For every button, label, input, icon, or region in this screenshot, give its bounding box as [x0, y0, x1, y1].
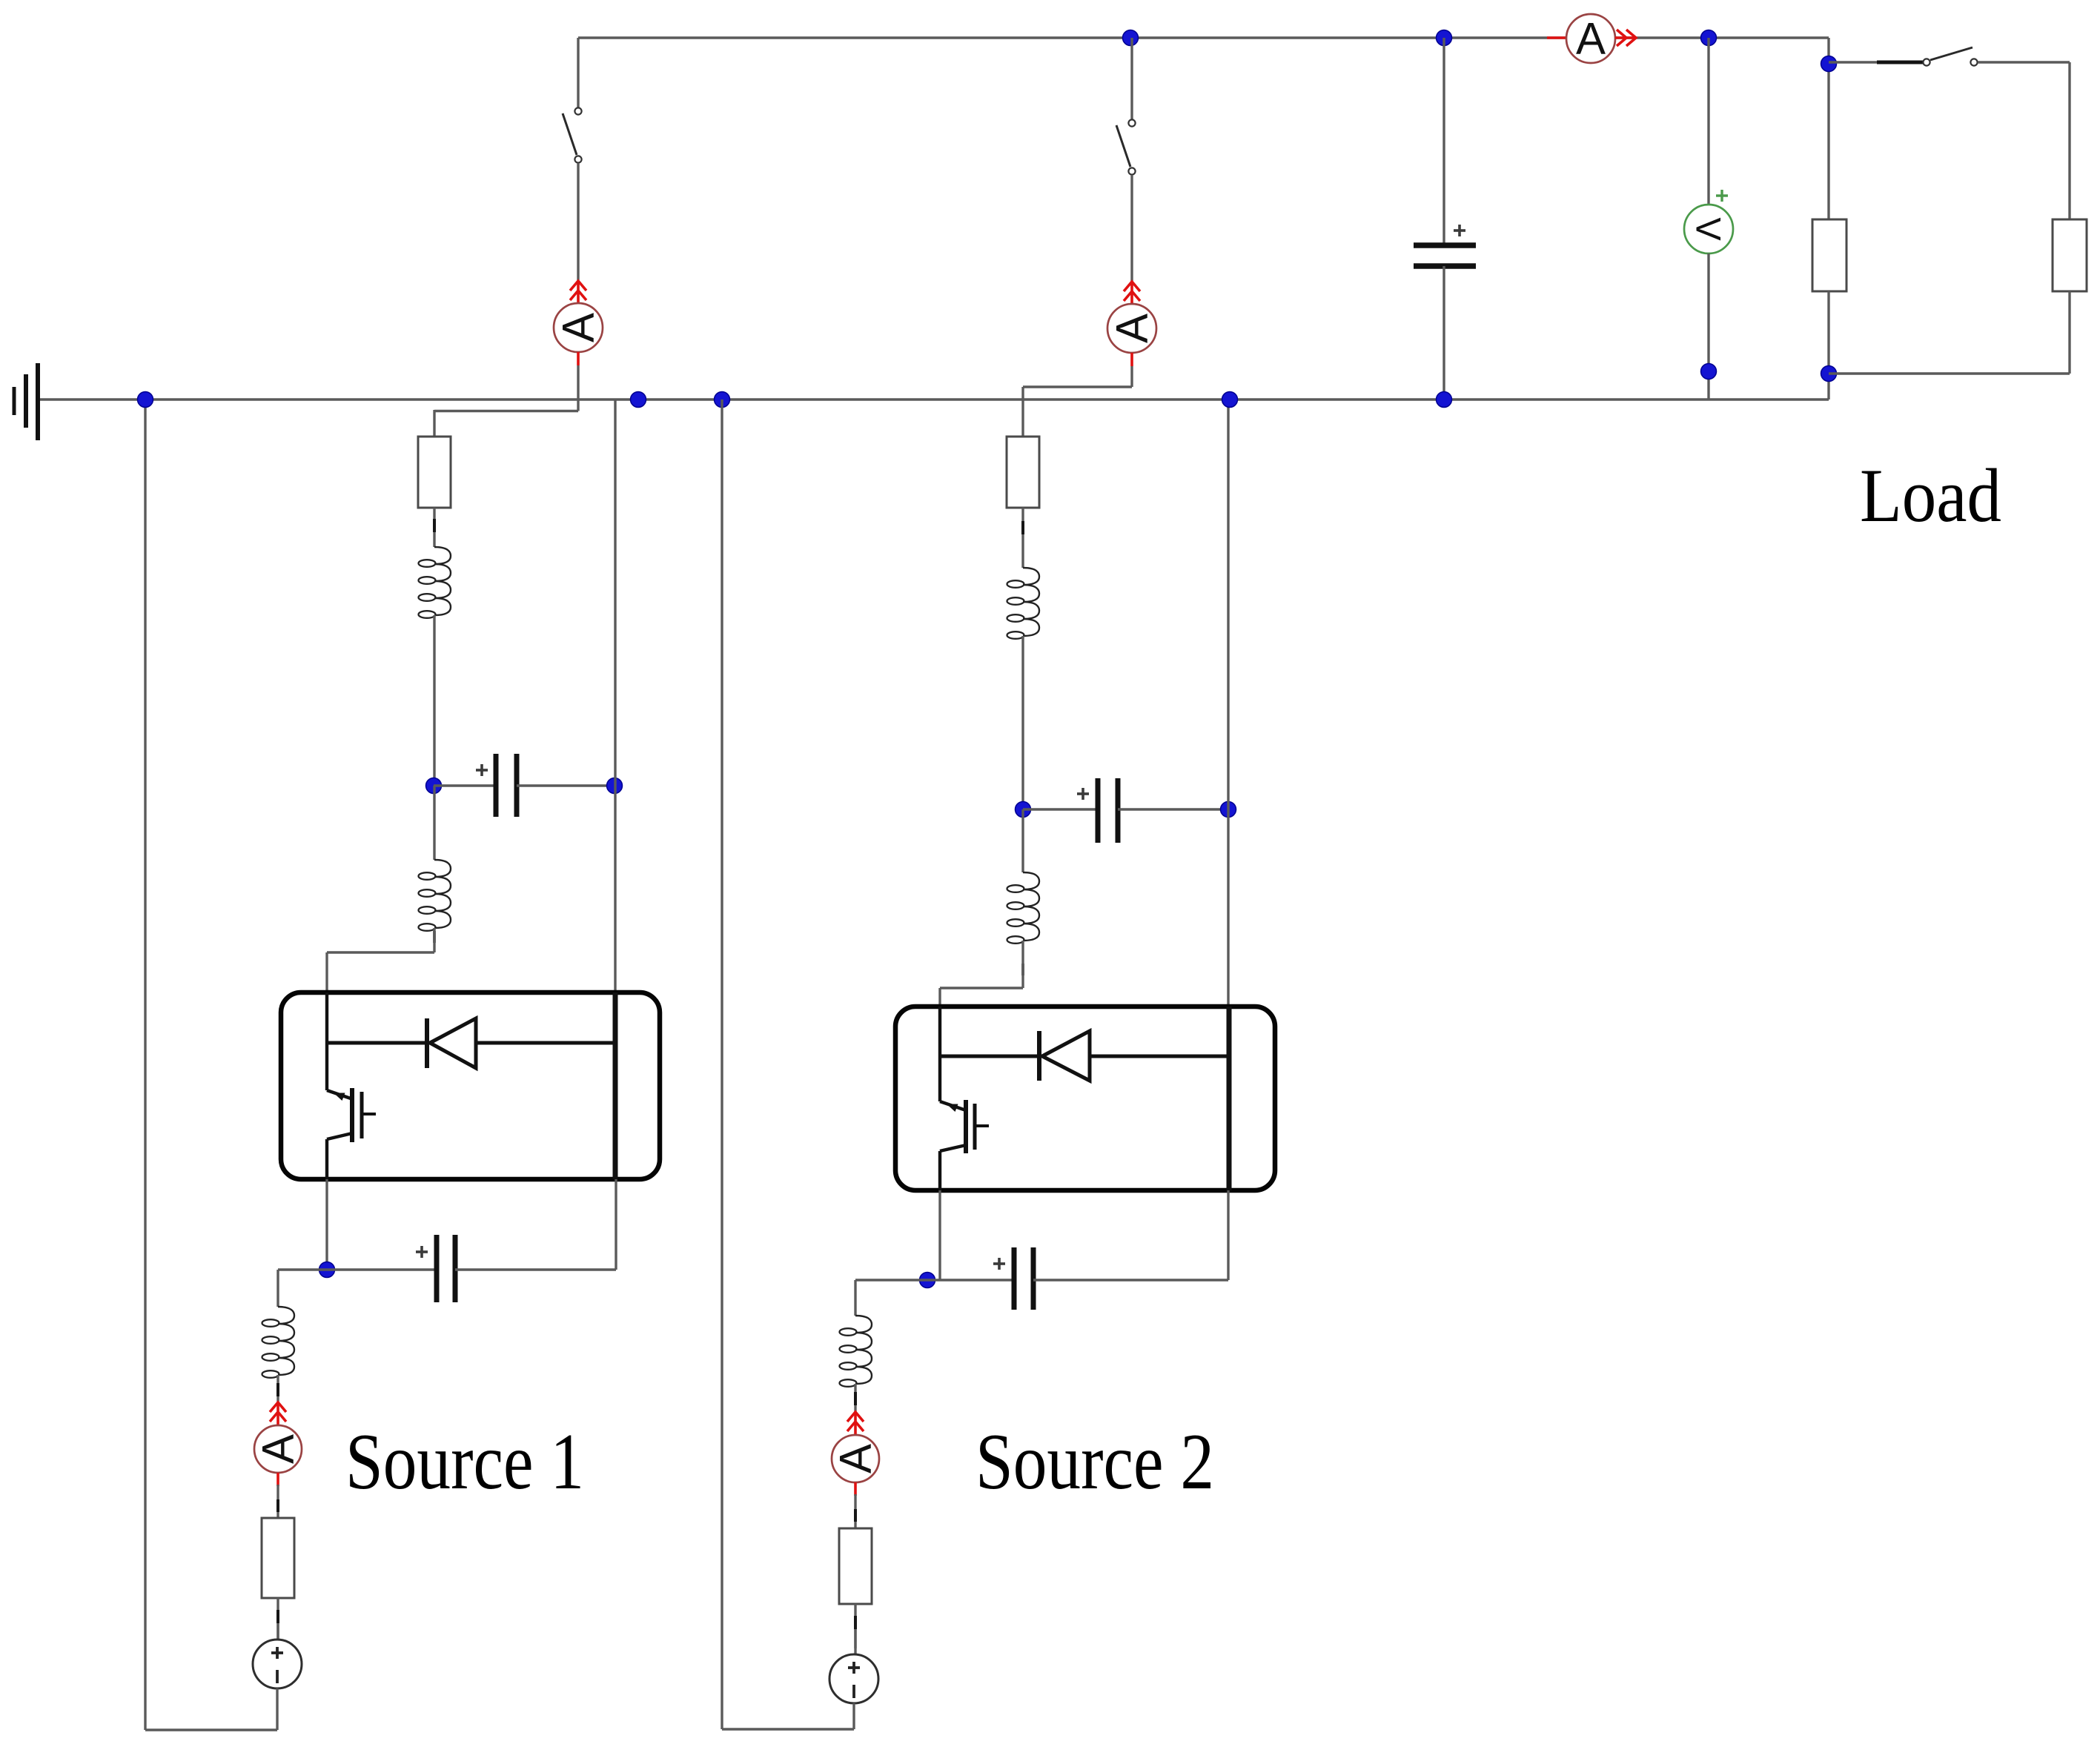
switch S3 (load switch)	[1829, 47, 2070, 66]
wire: N7 down to L2b	[1021, 809, 1024, 872]
wire: load left lower	[1827, 291, 1829, 400]
resistor RL1 (load)	[1812, 219, 1846, 291]
node N7 (cap C2a left)	[1016, 802, 1031, 818]
wire: L2b to module2 trunk	[940, 941, 1023, 1007]
node N11 (top bus / DC-link cap)	[1437, 30, 1452, 46]
svg-text:A: A	[1107, 314, 1157, 343]
wire: switched load right rail	[2068, 62, 2070, 219]
diode D1 (anti-parallel)	[327, 1018, 615, 1068]
label: Source 1	[345, 1418, 584, 1506]
module U1 emitter trunk	[325, 1139, 328, 1179]
wire: voltmeter upper lead	[1707, 38, 1709, 205]
wire: C2b right lead up to module2	[1033, 1190, 1228, 1280]
wire: node to L2c	[854, 1280, 856, 1316]
wire: R1b to V1 upper	[276, 1598, 279, 1640]
wire: C2a left lead	[1023, 808, 1098, 810]
svg-text:A: A	[554, 313, 603, 342]
lead dash below R1b	[276, 1610, 279, 1623]
wire: N2 down to L1b	[433, 786, 435, 860]
inductor L1b (source1 lower)	[419, 860, 451, 931]
wire: switch1 lower lead	[577, 163, 579, 282]
wire: R2a to L2a	[1021, 508, 1024, 568]
wire: module1 emitter down to node	[325, 1179, 328, 1270]
IGBT module U2 outline	[895, 1007, 1275, 1190]
module U2 emitter trunk	[938, 1151, 941, 1190]
node N1 on bus	[631, 392, 646, 408]
svg-text:Source 2: Source 2	[976, 1418, 1214, 1506]
node N16 (load bottom junction)	[1821, 366, 1837, 382]
inductor L1a (source1 upper)	[419, 547, 451, 618]
wire: jog above bus to source2 column	[1023, 387, 1132, 437]
wire: source2 right rail (bus to module)	[1227, 400, 1229, 1007]
label: Load	[1860, 454, 2001, 538]
wire: V2 to bottom return	[852, 1703, 855, 1729]
node N5 (top bus / switch2)	[1123, 30, 1139, 46]
svg-text:Load: Load	[1860, 454, 2001, 538]
voltage source V2 (DC, + -)	[829, 1654, 878, 1703]
wire: L2a to cap node	[1021, 636, 1024, 809]
wire: L2c to A5	[854, 1384, 856, 1414]
label: Source 2	[976, 1418, 1214, 1506]
wire: R1a to L1a	[433, 508, 435, 547]
IGBT module U1 outline	[281, 992, 660, 1179]
transistor Q1 (IGBT)	[327, 1088, 376, 1142]
node N4 (cap C1b left)	[319, 1262, 335, 1278]
lead dash above ammeter A5	[854, 1392, 857, 1405]
node N12 (bus / DC-link cap)	[1437, 392, 1452, 408]
ground symbol	[14, 363, 38, 440]
node N3 (cap C1a right)	[607, 778, 623, 794]
node N6 on bus (source2 return)	[715, 392, 730, 408]
wire: R2b to V2	[854, 1629, 856, 1648]
resistor R2b (source2 internal)	[839, 1528, 872, 1604]
module U2 collector trunk	[938, 1007, 941, 1101]
module U1 collector trunk	[325, 992, 328, 1090]
node N10 (cap C2b left)	[920, 1273, 935, 1288]
capacitor C2b (source2 bottom, +)	[993, 1247, 1033, 1310]
switch S1	[563, 107, 582, 162]
wire: switch1 upper lead	[577, 38, 579, 107]
node N14 (voltmeter bottom)	[1701, 364, 1717, 379]
svg-text:A: A	[254, 1434, 303, 1464]
node N2 (cap C1a left)	[426, 778, 442, 794]
capacitor C1a (source1 mid, +)	[476, 754, 517, 817]
wire: A2 to jog	[1130, 366, 1133, 387]
lead dash below R2b	[854, 1616, 857, 1629]
lead dash below L1b	[433, 931, 436, 943]
svg-text:Source 1: Source 1	[345, 1418, 584, 1506]
wire: ammeter A1 to jog	[577, 365, 579, 411]
capacitor C2a (source2 mid, +)	[1077, 778, 1118, 843]
resistor R1a (source1 series)	[418, 437, 451, 508]
wire: top DC bus	[578, 36, 1829, 39]
voltmeter VM1	[1684, 190, 1733, 253]
wire: module2 emitter down to node	[938, 1190, 941, 1280]
capacitor C1b (source1 bottom, +)	[416, 1235, 455, 1302]
module U2 right terminal bar	[1227, 1007, 1232, 1190]
inductor L2a (source2 upper)	[1007, 568, 1040, 639]
wire: L1a to cap node	[433, 615, 435, 786]
node N9 on bus (source2 right)	[1222, 392, 1238, 408]
wire: A4 to R1b	[276, 1485, 279, 1518]
lead dash below L2b	[1021, 964, 1024, 975]
lead dash below A4	[276, 1499, 279, 1512]
wire: C1a left lead	[434, 784, 496, 786]
wire: source2 bottom return	[722, 1728, 854, 1730]
wire: C1b left lead	[278, 1268, 437, 1270]
svg-text:A: A	[1576, 14, 1606, 64]
wire: R1b to V1	[276, 1623, 279, 1640]
ammeter A3 (load current)	[1547, 14, 1636, 64]
svg-text:V: V	[1689, 217, 1729, 241]
inductor L1c (source1 input)	[262, 1307, 295, 1378]
wire: V1 to bottom return	[276, 1688, 278, 1730]
wire: switch2 upper lead	[1130, 38, 1133, 119]
resistor RL2 (switched load)	[2053, 219, 2087, 291]
ammeter A5 (source2 current)	[831, 1412, 881, 1496]
wire: R2b to V2 upper	[854, 1604, 856, 1654]
ammeter A1	[554, 281, 603, 365]
voltage source V1 (DC, + -)	[253, 1640, 302, 1688]
wire: load bottom link	[1829, 291, 2070, 374]
wire: right rail top (bus corner down)	[1827, 38, 1829, 219]
wire: DC-link cap lower lead	[1442, 266, 1445, 400]
inductor L2c (source2 input)	[840, 1316, 872, 1387]
ammeter A2	[1107, 282, 1157, 366]
module U1 right terminal bar	[613, 992, 618, 1179]
wire: source1 bottom return	[145, 400, 277, 1730]
wire: source1 right rail (bus to module)	[614, 400, 616, 992]
node N8 (cap C2a right)	[1221, 802, 1236, 818]
svg-text:A: A	[831, 1444, 881, 1473]
transistor Q2 (IGBT)	[940, 1100, 989, 1153]
wire: node to L1c	[276, 1270, 279, 1307]
capacitor C3 (DC link, +)	[1414, 225, 1476, 266]
inductor L2b (source2 lower)	[1007, 872, 1040, 944]
wire: C2b left lead	[855, 1279, 1014, 1281]
wire: jog under bus to source1 boost column	[434, 410, 578, 437]
lead dash below A5	[854, 1509, 857, 1522]
wire: main ground bus	[40, 398, 1829, 400]
lead dash below R2a	[1021, 521, 1024, 534]
resistor R1b (source1 internal)	[262, 1518, 294, 1598]
switch S2	[1116, 119, 1136, 174]
wire: source2 return rail	[721, 400, 723, 1729]
node N15 (load switch tap)	[1821, 56, 1837, 72]
wire: switch2 lower lead	[1130, 175, 1133, 282]
lead dash above ammeter A4	[276, 1383, 279, 1396]
node N0 (bus / source1 return)	[138, 392, 153, 408]
wire: A5 to R2b	[854, 1494, 856, 1528]
wire: C1b right lead up to module1	[455, 1179, 616, 1270]
wire: C2a right lead	[1118, 808, 1228, 810]
diode D2 (anti-parallel)	[940, 1031, 1229, 1081]
node N13 (top bus / voltmeter)	[1701, 30, 1717, 46]
wire: DC-link cap upper lead	[1442, 38, 1445, 245]
wire: L1c to A4	[276, 1375, 279, 1405]
wire: L1b to module trunk	[327, 928, 434, 992]
ammeter A4 (source1 current)	[254, 1402, 303, 1486]
lead dash below R1a	[433, 519, 436, 532]
wire: C1a right lead	[517, 784, 615, 786]
wire: voltmeter lower lead	[1707, 253, 1709, 400]
resistor R2a (source2 series)	[1007, 437, 1039, 508]
